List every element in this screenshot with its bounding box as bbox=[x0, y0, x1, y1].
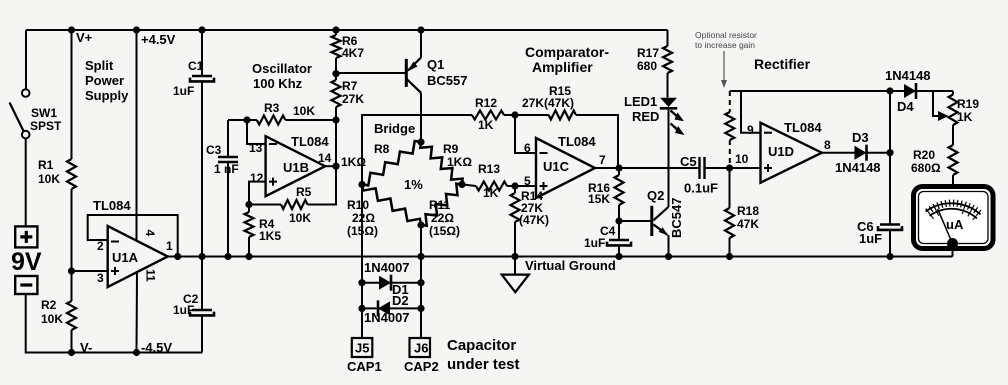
wire U1B pin12 bbox=[249, 182, 266, 205]
label optional resistor note bbox=[695, 30, 757, 50]
label C6 1uF bbox=[857, 219, 882, 246]
wire SW1 to battery bbox=[25, 138, 27, 226]
svg-text:Comparator-: Comparator- bbox=[525, 44, 609, 60]
node V+ junction bbox=[68, 26, 75, 33]
wire R16 bottom bbox=[618, 205, 620, 221]
wire bridge right to R13 bbox=[462, 184, 476, 186]
wire output node vertical bbox=[889, 91, 891, 257]
label 1N4007 bottom bbox=[364, 310, 410, 325]
svg-text:9V: 9V bbox=[11, 248, 42, 276]
svg-text:1KΩ: 1KΩ bbox=[341, 155, 366, 169]
svg-text:R10: R10 bbox=[347, 198, 369, 212]
svg-text:12: 12 bbox=[250, 171, 264, 185]
wire U1D pin9 bbox=[741, 91, 761, 133]
label R14 27K 47K bbox=[519, 189, 549, 227]
label R1 10K bbox=[38, 158, 60, 186]
node pin11 bottom rail bbox=[133, 349, 140, 356]
resistor R16 bbox=[615, 168, 624, 205]
svg-text:Capacitor: Capacitor bbox=[447, 337, 516, 354]
label Virtual Ground bbox=[525, 258, 616, 273]
label C3 1nF bbox=[206, 143, 239, 176]
svg-text:uA: uA bbox=[946, 217, 964, 232]
wire R18 top bbox=[729, 168, 731, 208]
svg-text:1K5: 1K5 bbox=[259, 229, 281, 243]
node D2 left bbox=[358, 305, 365, 312]
wire R18 bottom bbox=[729, 238, 731, 257]
svg-text:TL084: TL084 bbox=[93, 198, 131, 213]
label D2 bbox=[392, 293, 409, 308]
node D2 right bbox=[417, 305, 424, 312]
resistor R20 bbox=[949, 145, 958, 175]
wire V+ branch bbox=[71, 30, 73, 159]
resistor R3 bbox=[257, 116, 286, 125]
svg-text:R1: R1 bbox=[38, 158, 54, 172]
arrow optional resistor pointer bbox=[721, 51, 727, 88]
svg-text:Oscillator: Oscillator bbox=[252, 61, 312, 76]
wire Q2 base bbox=[619, 220, 652, 222]
wire R17 top bbox=[667, 30, 669, 46]
node Q2 base junction bbox=[615, 217, 622, 224]
svg-text:3: 3 bbox=[97, 271, 104, 285]
wire R14 bottom bbox=[514, 222, 516, 257]
capacitor C3 bbox=[218, 157, 238, 162]
wire R3 right bbox=[285, 119, 336, 121]
svg-text:1uF: 1uF bbox=[584, 236, 605, 250]
label R9 1Kohm bbox=[443, 142, 472, 169]
wire C3 branch bbox=[227, 120, 229, 257]
transistor Q2 bbox=[652, 206, 669, 257]
wire virtual ground rail bbox=[168, 256, 953, 258]
svg-text:Power: Power bbox=[85, 73, 124, 88]
label Oscillator 100Khz bbox=[252, 61, 312, 91]
label Capacitor under test bbox=[447, 337, 520, 373]
label pin 3 bbox=[97, 271, 104, 285]
label pin 6 bbox=[524, 141, 531, 155]
wire J6 branch bbox=[420, 257, 422, 339]
label pin 11 bbox=[144, 269, 158, 282]
capacitor C4 bbox=[607, 221, 631, 257]
resistor R11 bridge bbox=[421, 184, 462, 226]
resistor optional gain bbox=[725, 91, 734, 164]
svg-text:7: 7 bbox=[599, 153, 606, 167]
svg-text:C1: C1 bbox=[188, 59, 204, 73]
label CAP2 bbox=[404, 359, 439, 374]
label R20 680ohm bbox=[911, 148, 941, 175]
label R16 15K bbox=[588, 181, 610, 206]
svg-text:10K: 10K bbox=[41, 312, 63, 326]
svg-text:R18: R18 bbox=[737, 204, 759, 218]
label C2 1uF bbox=[173, 292, 199, 317]
svg-text:R17: R17 bbox=[637, 46, 659, 60]
svg-text:Virtual Ground: Virtual Ground bbox=[525, 258, 616, 273]
wire R3 left bbox=[228, 119, 257, 121]
node C3 rail bbox=[224, 253, 231, 260]
node C4 rail bbox=[615, 253, 622, 260]
label C1 1uF bbox=[173, 59, 204, 98]
svg-text:14: 14 bbox=[318, 151, 332, 165]
svg-text:CAP1: CAP1 bbox=[347, 359, 382, 374]
svg-text:Rectifier: Rectifier bbox=[754, 56, 811, 72]
svg-text:LED1: LED1 bbox=[624, 94, 657, 109]
label D3 1N4148 bbox=[835, 130, 881, 175]
node bridge top bbox=[417, 138, 424, 145]
label TL084 U1D bbox=[784, 120, 822, 135]
svg-text:D2: D2 bbox=[392, 293, 409, 308]
wire C1 branch bbox=[201, 30, 203, 257]
svg-text:R20: R20 bbox=[913, 148, 935, 162]
svg-text:5: 5 bbox=[524, 174, 531, 188]
label R6 4K7 bbox=[342, 34, 364, 60]
capacitor C2 bbox=[190, 310, 214, 315]
label R10 22ohm bbox=[347, 198, 378, 238]
svg-text:1K: 1K bbox=[478, 118, 494, 132]
wire left battery branch bbox=[25, 30, 27, 89]
node U1C output junction bbox=[615, 164, 622, 171]
wire LED to Q2 collector bbox=[668, 108, 670, 207]
switch SW1 bbox=[10, 89, 30, 138]
wire C2 branch bbox=[201, 257, 203, 353]
diode D3 bbox=[855, 145, 867, 161]
svg-text:to increase gain: to increase gain bbox=[695, 40, 755, 50]
wire Q1 emitter supply bbox=[420, 30, 422, 58]
label R12 1K bbox=[475, 96, 497, 132]
node R4 rail bbox=[245, 253, 252, 260]
label CAP1 bbox=[347, 359, 382, 374]
svg-text:1N4007: 1N4007 bbox=[364, 310, 410, 325]
svg-text:1N4007: 1N4007 bbox=[364, 260, 410, 275]
wire R17 to LED bbox=[667, 73, 669, 98]
svg-text:-4.5V: -4.5V bbox=[141, 340, 172, 355]
label Q1 BC557 bbox=[427, 57, 467, 88]
svg-text:U1C: U1C bbox=[543, 159, 570, 174]
label TL084 U1A bbox=[93, 198, 131, 213]
svg-text:680: 680 bbox=[637, 59, 657, 73]
wire pin6 branch bbox=[515, 115, 536, 153]
label TL084 U1B bbox=[291, 134, 329, 149]
svg-text:V+: V+ bbox=[76, 30, 93, 45]
svg-text:0.1uF: 0.1uF bbox=[684, 181, 718, 196]
wire C5 to pin10 bbox=[705, 167, 761, 169]
label Split Power Supply bbox=[85, 58, 129, 103]
node Q1 base junction bbox=[332, 70, 339, 77]
wire Q1 collector bbox=[420, 93, 422, 142]
op-amp U1B bbox=[266, 136, 326, 196]
label R19 1K bbox=[957, 97, 979, 124]
svg-text:V-: V- bbox=[80, 340, 92, 355]
svg-text:6: 6 bbox=[524, 141, 531, 155]
label R7 27K bbox=[342, 79, 364, 106]
svg-text:1uF: 1uF bbox=[173, 303, 194, 317]
svg-text:TL084: TL084 bbox=[558, 134, 596, 149]
svg-text:J5: J5 bbox=[355, 341, 369, 356]
label C5 0.1uF bbox=[680, 154, 718, 196]
op-amp U1A bbox=[108, 226, 168, 287]
wire R20 to meter bbox=[952, 175, 954, 186]
node Q2 emitter rail bbox=[665, 253, 672, 260]
svg-text:1 nF: 1 nF bbox=[214, 162, 239, 176]
diode D2 bbox=[378, 300, 390, 316]
transistor Q1 bbox=[336, 58, 421, 93]
svg-text:C3: C3 bbox=[206, 143, 222, 157]
node Q1 emitter rail bbox=[417, 26, 424, 33]
op-amp U1C bbox=[536, 138, 595, 198]
label D1 bbox=[392, 282, 409, 297]
svg-text:R2: R2 bbox=[41, 298, 57, 312]
wire D1 row bbox=[362, 282, 421, 284]
resistor R7 bbox=[332, 80, 341, 107]
wire node A down bbox=[71, 271, 73, 301]
label pin 2 bbox=[97, 239, 104, 253]
wire D3 to node bbox=[867, 152, 890, 154]
wire meter to rail bbox=[952, 243, 954, 257]
label R17 680 bbox=[637, 46, 659, 73]
svg-text:8: 8 bbox=[824, 138, 831, 152]
svg-text:+4.5V: +4.5V bbox=[141, 32, 176, 47]
svg-text:1N4148: 1N4148 bbox=[885, 68, 931, 83]
svg-text:Bridge: Bridge bbox=[374, 121, 415, 136]
battery 9V minus terminal bbox=[15, 276, 37, 294]
wire U1C output bbox=[595, 167, 700, 169]
resistor R4 bbox=[245, 212, 254, 237]
label D4 1N4148 bbox=[885, 68, 931, 114]
node R2 bottom bbox=[68, 349, 75, 356]
node R18 rail bbox=[726, 253, 733, 260]
battery 9V plus terminal bbox=[15, 226, 37, 247]
label R2 10K bbox=[41, 298, 63, 326]
label R13 1K bbox=[478, 162, 500, 200]
wire U1D output bbox=[822, 152, 855, 154]
wire R12 right bbox=[504, 114, 515, 116]
svg-text:Q2: Q2 bbox=[647, 188, 664, 203]
svg-text:1uF: 1uF bbox=[859, 231, 882, 246]
label 1N4007 top bbox=[364, 260, 410, 275]
capacitor C6 bbox=[878, 225, 902, 230]
svg-text:13: 13 bbox=[249, 141, 263, 155]
wire U1B output branch bbox=[308, 120, 337, 205]
label Bridge bbox=[374, 121, 415, 136]
node bridge right bbox=[458, 181, 465, 188]
svg-text:1%: 1% bbox=[404, 177, 423, 192]
node D3 output bbox=[886, 149, 893, 156]
wire U1A feedback bbox=[88, 215, 178, 257]
svg-text:22Ω: 22Ω bbox=[352, 211, 375, 225]
svg-text:1K: 1K bbox=[483, 186, 499, 200]
label pin 12 bbox=[250, 171, 264, 185]
wire bridge bottom to rail bbox=[420, 225, 422, 257]
svg-text:10K: 10K bbox=[38, 172, 60, 186]
svg-text:TL084: TL084 bbox=[784, 120, 822, 135]
svg-text:R13: R13 bbox=[478, 162, 500, 176]
wire R7 bottom bbox=[335, 107, 337, 120]
node R4-R5 junction bbox=[245, 201, 252, 208]
label R5 10K bbox=[289, 185, 312, 225]
node pin13 junction bbox=[243, 116, 250, 123]
svg-text:U1B: U1B bbox=[283, 160, 309, 175]
capacitor C5 bbox=[700, 157, 705, 179]
svg-text:Split: Split bbox=[85, 58, 114, 73]
svg-text:22Ω: 22Ω bbox=[431, 211, 454, 225]
label C4 1uF bbox=[584, 224, 616, 250]
svg-text:R5: R5 bbox=[296, 185, 312, 199]
led LED1 bbox=[660, 98, 685, 135]
svg-text:Optional resistor: Optional resistor bbox=[695, 30, 757, 40]
svg-text:R19: R19 bbox=[957, 97, 979, 111]
svg-text:4K7: 4K7 bbox=[342, 46, 364, 60]
wire pin4 supply bbox=[136, 30, 138, 242]
svg-text:27K(47K): 27K(47K) bbox=[522, 96, 574, 110]
resistor R5 bbox=[281, 200, 308, 209]
svg-text:47K: 47K bbox=[737, 217, 759, 231]
node R12-R15 junction bbox=[511, 111, 518, 118]
node D1 left bbox=[358, 279, 365, 286]
svg-text:4: 4 bbox=[143, 230, 157, 237]
label +4.5V bbox=[141, 32, 176, 47]
wire R13 right bbox=[507, 185, 536, 187]
svg-text:680Ω: 680Ω bbox=[911, 161, 941, 175]
svg-text:1KΩ: 1KΩ bbox=[447, 155, 472, 169]
svg-text:1uF: 1uF bbox=[173, 84, 194, 98]
resistor R10 bridge bbox=[362, 184, 421, 225]
node C1-C2 midrail bbox=[198, 253, 205, 260]
label Q2 BC547 bbox=[647, 188, 684, 238]
svg-text:(47K): (47K) bbox=[519, 213, 549, 227]
svg-text:BC557: BC557 bbox=[427, 73, 467, 88]
node bridge rail junction bbox=[417, 253, 424, 260]
resistor R14 bbox=[511, 186, 520, 222]
ground virtual ground symbol bbox=[502, 257, 529, 293]
svg-text:D3: D3 bbox=[852, 130, 869, 145]
node C6 rail bbox=[886, 253, 893, 260]
label pin 1 bbox=[166, 239, 173, 253]
label pin 10 bbox=[735, 152, 749, 166]
node U1B output bbox=[332, 163, 339, 170]
svg-text:R8: R8 bbox=[374, 142, 390, 156]
svg-text:under test: under test bbox=[447, 356, 520, 373]
svg-text:D4: D4 bbox=[897, 99, 914, 114]
svg-text:SPST: SPST bbox=[30, 119, 62, 133]
label 1 percent bbox=[404, 177, 423, 192]
svg-text:RED: RED bbox=[632, 109, 659, 124]
svg-text:SW1: SW1 bbox=[31, 106, 57, 120]
wire R1 to node A bbox=[71, 189, 73, 271]
label pin 9 bbox=[747, 123, 754, 137]
op-amp U1D bbox=[761, 123, 822, 183]
node U1A output bbox=[174, 253, 181, 260]
svg-text:C5: C5 bbox=[680, 154, 697, 169]
svg-text:Supply: Supply bbox=[85, 88, 129, 103]
diode D1 bbox=[379, 275, 391, 291]
wire U1D feedback top bbox=[730, 90, 953, 92]
svg-text:BC547: BC547 bbox=[669, 198, 684, 238]
node A R1-R2 midpoint bbox=[68, 267, 75, 274]
svg-text:J6: J6 bbox=[414, 341, 428, 356]
label pin 4 bbox=[143, 230, 157, 237]
node D1 right bbox=[417, 279, 424, 286]
svg-text:CAP2: CAP2 bbox=[404, 359, 439, 374]
wire R4 bottom bbox=[248, 237, 250, 257]
label LED1 RED bbox=[624, 94, 659, 124]
svg-text:15K: 15K bbox=[588, 192, 610, 206]
node C1 top bbox=[198, 26, 205, 33]
svg-text:10: 10 bbox=[735, 152, 749, 166]
connector J6 bbox=[410, 338, 431, 357]
resistor R19 trimmer bbox=[933, 91, 958, 125]
wire J5 branch bbox=[361, 184, 363, 338]
label SW1 SPST bbox=[30, 106, 62, 133]
svg-text:U1D: U1D bbox=[768, 144, 794, 159]
label R15 27K 47K bbox=[522, 84, 574, 110]
node D4 feedback junction bbox=[886, 87, 893, 94]
svg-text:1: 1 bbox=[166, 239, 173, 253]
meter uA bbox=[914, 187, 994, 250]
label pin 13 bbox=[249, 141, 263, 155]
svg-text:TL084: TL084 bbox=[291, 134, 329, 149]
connector J5 bbox=[352, 338, 373, 357]
label TL084 U1C bbox=[558, 134, 596, 149]
label R8 1Kohm bbox=[341, 142, 390, 169]
wire R5 left bbox=[249, 204, 281, 206]
svg-text:11: 11 bbox=[144, 269, 158, 282]
svg-text:U1A: U1A bbox=[112, 250, 139, 265]
svg-text:Q1: Q1 bbox=[427, 57, 444, 72]
wire R2 to V- rail bbox=[71, 330, 73, 353]
resistor R8 bridge bbox=[362, 141, 421, 185]
node R6 top bbox=[332, 26, 339, 33]
label R3 10K bbox=[264, 101, 315, 118]
svg-text:10K: 10K bbox=[289, 211, 311, 225]
svg-text:R3: R3 bbox=[264, 101, 280, 115]
svg-text:27K: 27K bbox=[342, 92, 364, 106]
label V+ bbox=[76, 30, 93, 45]
svg-text:R7: R7 bbox=[342, 79, 358, 93]
wire R4 top bbox=[248, 205, 250, 213]
node bridge bottom bbox=[417, 221, 424, 228]
label pin 7 bbox=[599, 153, 606, 167]
label R18 47K bbox=[737, 204, 759, 231]
label R4 1K5 bbox=[259, 217, 281, 243]
label -4.5V bbox=[141, 340, 172, 355]
svg-text:R12: R12 bbox=[475, 96, 497, 110]
wire R15 leads bbox=[515, 115, 618, 168]
svg-text:1N4148: 1N4148 bbox=[835, 160, 881, 175]
wire U1A pin3 bbox=[72, 270, 108, 272]
resistor R9 bridge bbox=[420, 142, 462, 184]
node R13-R14 junction bbox=[511, 182, 518, 189]
node R14 rail bbox=[511, 253, 518, 260]
svg-text:R11: R11 bbox=[429, 198, 451, 212]
node R3-R7 junction bbox=[332, 116, 339, 123]
node +4.5V junction bbox=[133, 26, 140, 33]
node pin10 junction bbox=[726, 164, 733, 171]
label V- bbox=[80, 340, 92, 355]
svg-text:2: 2 bbox=[97, 239, 104, 253]
resistor R12 bbox=[472, 111, 504, 120]
svg-text:Amplifier: Amplifier bbox=[532, 59, 593, 75]
svg-text:R9: R9 bbox=[443, 142, 459, 156]
resistor R6 bbox=[332, 30, 341, 58]
label pin 5 bbox=[524, 174, 531, 188]
svg-text:1K: 1K bbox=[957, 110, 973, 124]
label 9V bbox=[11, 248, 42, 276]
label Comparator-Amplifier bbox=[525, 44, 609, 75]
wire R6 bottom bbox=[335, 58, 337, 80]
wire battery to V- rail bbox=[26, 294, 202, 353]
label pin 14 bbox=[318, 151, 332, 165]
wire bridge left top bbox=[362, 115, 472, 184]
svg-text:100 Khz: 100 Khz bbox=[253, 76, 303, 91]
svg-text:(15Ω): (15Ω) bbox=[429, 224, 460, 238]
wire R19 to R20 bbox=[952, 125, 954, 145]
